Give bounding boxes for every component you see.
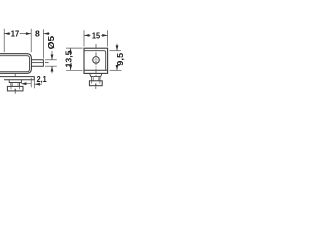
right view: washer — [90, 74, 102, 77]
left view: clamp body outer contour — [0, 54, 31, 74]
left view: pin centerline — [32, 62, 43, 64]
dimension Ø5: extension lines — [45, 59, 57, 61]
dimension 9,5: extension lines — [110, 50, 122, 52]
left view: screw neck — [11, 83, 20, 87]
dimension 2,1: arrows — [21, 83, 31, 85]
right view: hole horizontal centerline — [91, 59, 100, 61]
dimension 9,5: dimension line segments and arrows — [116, 44, 118, 51]
left view: knurled knob — [7, 86, 23, 91]
dimension 13,5: extension lines — [66, 47, 83, 49]
dimension 13,5: dimension line segments and arrows — [70, 48, 72, 51]
left view: screw washer — [9, 80, 21, 83]
svg-text:2,1: 2,1 — [37, 74, 47, 84]
dimension 17: dimension line and arrows — [4, 33, 31, 35]
right view: hole circle — [93, 57, 100, 64]
right view: centerline below knob — [95, 86, 97, 89]
right view: inner lip lines — [84, 51, 106, 70]
dimension 15: extension lines — [83, 30, 85, 46]
right view: knob slot — [95, 83, 97, 85]
svg-text:17: 17 — [11, 29, 20, 39]
left view: mounting plate — [0, 77, 34, 80]
svg-text:15: 15 — [92, 31, 100, 41]
dimension 8: extension line (right) — [42, 29, 44, 58]
left view: clamp body inner contour — [0, 56, 30, 72]
svg-text:Ø5: Ø5 — [46, 36, 56, 50]
svg-text:9,5: 9,5 — [115, 53, 125, 66]
dimension 15: dimension line and arrows — [84, 34, 108, 36]
left view: knob slot — [14, 89, 16, 91]
dimension 2,1: extension lines — [30, 78, 32, 87]
dimension 8: outside arrow right — [44, 33, 50, 35]
right view: knob — [89, 81, 102, 86]
right view: neck — [92, 77, 100, 81]
right view: vertical centerline — [95, 44, 97, 76]
right view: body rectangle — [84, 48, 108, 73]
right view: plate front edge — [84, 69, 108, 71]
dimension Ø5: dimension line segments and arrows — [51, 51, 53, 60]
svg-text:8: 8 — [35, 29, 40, 39]
dimension 17: extension lines — [3, 29, 5, 53]
svg-text:13,5: 13,5 — [64, 50, 74, 67]
left view: pin outline — [31, 60, 43, 66]
left view: screw centerline dashes — [14, 74, 16, 76]
